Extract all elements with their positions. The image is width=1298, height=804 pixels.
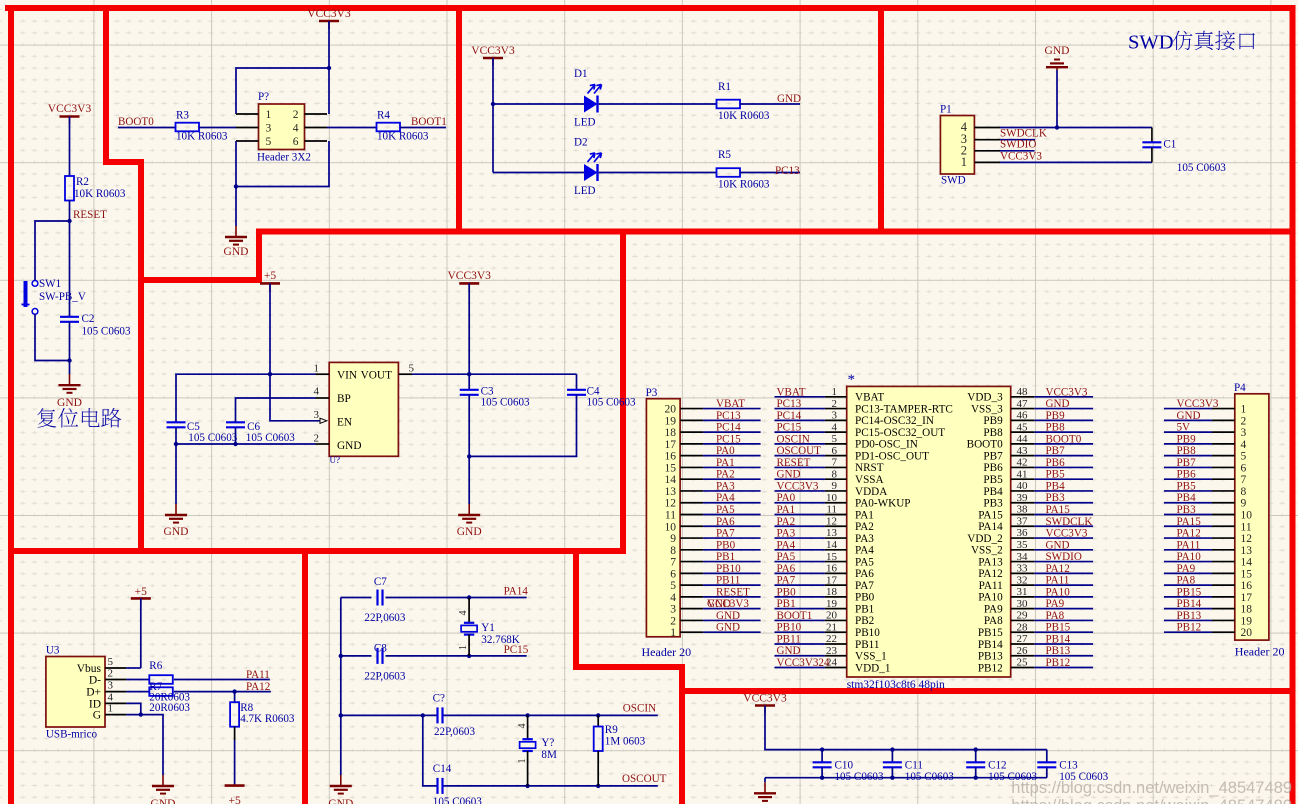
junction C2/SW1 xyxy=(67,358,71,362)
svg-text:PC15: PC15 xyxy=(716,433,741,445)
svg-text:PB9: PB9 xyxy=(1046,410,1066,422)
wire P4 PB4 xyxy=(1164,502,1212,504)
wire xyxy=(328,21,330,68)
svg-text:PA0: PA0 xyxy=(777,492,796,504)
ground crystal xyxy=(328,775,353,804)
pin 48 mcu right xyxy=(1011,386,1034,398)
wire P4 PA10 xyxy=(1164,561,1212,563)
svg-text:SWD: SWD xyxy=(1128,32,1174,54)
svg-text:C14: C14 xyxy=(433,763,452,775)
svg-text:PA1: PA1 xyxy=(777,504,796,516)
wire P3 pin 3 xyxy=(703,608,761,610)
svg-text:1: 1 xyxy=(670,627,676,639)
pin 40 mcu right xyxy=(1011,480,1034,492)
svg-text:3: 3 xyxy=(266,123,272,135)
wire xyxy=(599,103,717,105)
svg-text:G: G xyxy=(93,710,101,722)
svg-text:VCC3V3: VCC3V3 xyxy=(1177,398,1219,410)
header P3 Header 20 xyxy=(646,399,680,637)
resistor R8 xyxy=(230,702,239,727)
pin 1 P3 xyxy=(670,627,703,639)
wire OSCOUT xyxy=(444,785,658,787)
pin 43 mcu right xyxy=(1011,445,1034,457)
junction Y1 top xyxy=(467,595,471,599)
wire xyxy=(400,127,446,129)
wire mcu pin 38 xyxy=(1034,514,1093,516)
svg-text:SWDIO: SWDIO xyxy=(1046,551,1082,563)
svg-text:VSS_2: VSS_2 xyxy=(971,545,1003,557)
power VCC3V3 led xyxy=(471,45,515,66)
svg-text:RESET: RESET xyxy=(716,586,750,598)
svg-text:2: 2 xyxy=(108,668,114,680)
svg-text:GND: GND xyxy=(1046,539,1070,551)
title 复位电路 xyxy=(37,408,121,428)
pin lead Y1 top xyxy=(468,598,470,623)
svg-text:PB10: PB10 xyxy=(777,622,802,634)
pin 34 mcu right xyxy=(1011,551,1034,563)
svg-text:https://blog.csdn.net/weixin_4: https://blog.csdn.net/weixin_48547489 xyxy=(1011,779,1292,797)
svg-text:PA0-WKUP: PA0-WKUP xyxy=(855,498,911,510)
pin numbers U? xyxy=(314,363,415,445)
svg-text:RESET: RESET xyxy=(73,209,107,221)
svg-text:BP: BP xyxy=(337,393,351,405)
svg-text:4: 4 xyxy=(517,724,528,729)
pin stubs U3 xyxy=(105,668,126,715)
wire xyxy=(764,778,766,783)
wire ID xyxy=(126,703,140,714)
wire P4 PB14 xyxy=(1164,608,1212,610)
svg-text:BOOT1: BOOT1 xyxy=(411,116,447,128)
wire xyxy=(1000,139,1035,141)
wire mcu pin 45 xyxy=(1034,431,1093,433)
pin 4 P3 xyxy=(670,592,703,604)
ground usb xyxy=(151,775,176,804)
wire xyxy=(69,201,71,222)
svg-text:PD1-OSC_OUT: PD1-OSC_OUT xyxy=(855,450,929,462)
LED D2 xyxy=(584,153,602,181)
svg-text:6: 6 xyxy=(1241,462,1247,474)
ground swd (inverted) xyxy=(1045,45,1070,70)
wire P3 PB10 xyxy=(703,572,761,574)
svg-text:SWDCLK: SWDCLK xyxy=(1000,127,1047,139)
svg-text:PB15: PB15 xyxy=(1177,586,1202,598)
svg-text:VCC3V3: VCC3V3 xyxy=(1000,150,1042,162)
wire xyxy=(140,598,142,668)
svg-text:PA10: PA10 xyxy=(1177,551,1202,563)
wire P3 PB1 xyxy=(703,561,761,563)
svg-text:C10: C10 xyxy=(835,760,854,772)
wire C12 bottom lead xyxy=(975,767,977,777)
wire crystal gnd rail xyxy=(340,598,342,776)
pin 37 mcu right xyxy=(1011,515,1034,527)
svg-text:PA12: PA12 xyxy=(1177,528,1201,540)
svg-text:11: 11 xyxy=(665,510,676,522)
wire VOUT xyxy=(412,373,577,375)
svg-text:R1: R1 xyxy=(718,81,731,93)
svg-text:105 C0603: 105 C0603 xyxy=(82,326,131,338)
svg-text:4: 4 xyxy=(1241,439,1247,451)
svg-text:VBAT: VBAT xyxy=(716,398,745,410)
wire P3 PA6 xyxy=(703,525,761,527)
svg-text:BOOT0: BOOT0 xyxy=(1046,433,1082,445)
pin 6 P3 xyxy=(670,568,703,580)
wire mcu pin 48 xyxy=(1034,396,1093,398)
svg-text:R2: R2 xyxy=(76,176,89,188)
svg-text:9: 9 xyxy=(1241,498,1247,510)
wire mcu pin 42 xyxy=(1034,466,1093,468)
wire mcu pin 15 xyxy=(775,561,825,563)
svg-text:1M 0603: 1M 0603 xyxy=(605,736,646,748)
section divider power-top step xyxy=(138,232,259,281)
wire mcu pin 24 xyxy=(775,667,825,669)
svg-text:15: 15 xyxy=(665,462,677,474)
svg-text:VCC3V3: VCC3V3 xyxy=(777,480,819,492)
section border outer top xyxy=(5,5,1296,11)
pin 12 P4 xyxy=(1212,533,1252,545)
pin 16 P3 xyxy=(665,451,704,463)
wire D+ xyxy=(126,691,149,693)
pin 4 P4 xyxy=(1212,439,1247,451)
svg-text:PB3: PB3 xyxy=(1177,504,1197,516)
wire P3 PA5 xyxy=(703,514,761,516)
power +5 usb xyxy=(131,586,151,606)
svg-text:PA5: PA5 xyxy=(855,556,874,568)
capacitor C10 xyxy=(813,762,832,767)
svg-text:10K R0603: 10K R0603 xyxy=(74,188,126,200)
svg-text:4: 4 xyxy=(108,691,114,703)
junction OSCIN rail xyxy=(339,713,343,717)
pin 44 mcu right xyxy=(1011,433,1034,445)
junction cap top x892 xyxy=(890,747,894,751)
wire mcu pin 43 xyxy=(1034,455,1093,457)
svg-text:VCC3V3: VCC3V3 xyxy=(447,270,491,282)
LED D1 xyxy=(584,85,602,113)
resistor R7 xyxy=(149,687,173,696)
svg-text:12: 12 xyxy=(1241,533,1253,545)
svg-text:SWD: SWD xyxy=(941,175,966,187)
pin 46 mcu right xyxy=(1011,410,1034,422)
svg-text:GND: GND xyxy=(716,610,740,622)
wire xyxy=(69,221,71,317)
svg-text:+5: +5 xyxy=(264,270,276,282)
svg-text:16: 16 xyxy=(665,451,677,463)
svg-text:PA8: PA8 xyxy=(1046,610,1065,622)
svg-text:105 C0603: 105 C0603 xyxy=(587,397,636,409)
capacitor C8 xyxy=(378,648,383,664)
wire xyxy=(328,68,330,114)
svg-text:VSS_3: VSS_3 xyxy=(971,403,1003,415)
svg-text:PB5: PB5 xyxy=(983,474,1003,486)
svg-text:14: 14 xyxy=(1241,557,1253,569)
ground boot xyxy=(224,226,249,258)
svg-text:17: 17 xyxy=(665,439,677,451)
svg-text:NRST: NRST xyxy=(855,462,884,474)
wire P4 PA11 xyxy=(1164,549,1212,551)
svg-text:PB0: PB0 xyxy=(855,592,875,604)
wire decoupling top rail xyxy=(765,706,1047,750)
svg-text:D1: D1 xyxy=(574,68,588,80)
svg-text:4: 4 xyxy=(458,611,469,616)
svg-text:+5: +5 xyxy=(135,586,147,598)
svg-text:PA13: PA13 xyxy=(978,556,1003,568)
pin 18 P3 xyxy=(665,427,704,439)
svg-text:GND: GND xyxy=(716,622,740,634)
wire xyxy=(35,221,70,281)
wire xyxy=(327,127,377,129)
svg-text:PA8: PA8 xyxy=(984,615,1003,627)
svg-text:PA7: PA7 xyxy=(716,528,735,540)
pin 26 mcu right xyxy=(1011,645,1034,657)
capacitor C14 xyxy=(438,778,443,794)
wire mcu pin 3 xyxy=(775,419,825,421)
svg-text:PA9: PA9 xyxy=(1046,598,1065,610)
junction C8 rail xyxy=(339,654,343,658)
capacitor C11 xyxy=(883,762,902,767)
svg-text:GND: GND xyxy=(777,469,801,481)
junction C3/C4 gnd xyxy=(467,454,471,458)
pin 13 P3 xyxy=(665,486,704,498)
wire C12 top lead xyxy=(975,750,977,763)
pin 15 P4 xyxy=(1212,568,1252,580)
wire P4 PB6 xyxy=(1164,478,1212,480)
svg-text:5: 5 xyxy=(266,136,272,148)
wire mcu pin 47 xyxy=(1034,408,1093,410)
pin 8 P4 xyxy=(1212,486,1247,498)
svg-text:GND: GND xyxy=(457,526,482,538)
wire mcu pin 20 xyxy=(775,619,825,621)
pin lead R8 bottom xyxy=(234,727,236,740)
svg-text:VCC3V3: VCC3V3 xyxy=(48,103,92,115)
pin arrow EN xyxy=(320,418,327,423)
svg-text:GND: GND xyxy=(151,798,176,804)
svg-text:SWDCLK: SWDCLK xyxy=(1046,516,1093,528)
junction VOUT xyxy=(467,372,471,376)
wire P4 PB15 xyxy=(1164,596,1212,598)
svg-text:PB3: PB3 xyxy=(1046,492,1066,504)
wire xyxy=(1000,161,1152,163)
svg-text:PB6: PB6 xyxy=(983,462,1003,474)
pin lead C1 bottom xyxy=(1151,147,1153,162)
wire P4 PB8 xyxy=(1164,455,1212,457)
svg-text:PB11: PB11 xyxy=(716,575,740,587)
svg-text:R3: R3 xyxy=(176,110,189,122)
ground decoupling xyxy=(754,782,776,801)
pin lead R9 bottom xyxy=(597,751,599,786)
wire mcu pin 18 xyxy=(775,596,825,598)
pin 3 P4 xyxy=(1212,427,1247,439)
svg-text:8M: 8M xyxy=(541,749,557,761)
power VCC3V3 reset xyxy=(48,103,92,125)
pin 41 mcu right xyxy=(1011,468,1034,480)
junction led vcc xyxy=(491,102,495,106)
section divider horizontal y691 xyxy=(679,688,1296,694)
pin 29 mcu right xyxy=(1011,610,1034,622)
wire P3 VBAT xyxy=(703,408,761,410)
pin 32 mcu right xyxy=(1011,574,1034,586)
wire xyxy=(174,691,271,693)
svg-text:USB-mrico: USB-mrico xyxy=(46,729,98,741)
svg-text:PB11: PB11 xyxy=(777,633,801,645)
svg-text:PB13: PB13 xyxy=(1046,645,1071,657)
pin 2 P3 xyxy=(670,615,703,627)
svg-text:3: 3 xyxy=(108,680,114,692)
svg-text:PC14-OSC32_IN: PC14-OSC32_IN xyxy=(855,415,934,427)
title SWD仿真接口 xyxy=(1128,31,1255,54)
capacitor C12 xyxy=(966,762,985,767)
svg-text:PA2: PA2 xyxy=(855,521,874,533)
svg-text:PA6: PA6 xyxy=(855,568,874,580)
pin 4 mcu left xyxy=(825,421,847,433)
capacitor C? xyxy=(438,707,443,723)
svg-text:D-: D- xyxy=(89,675,101,687)
pin 9 P3 xyxy=(670,533,703,545)
wire OSCIN left xyxy=(341,714,437,716)
wire P4 PA8 xyxy=(1164,584,1212,586)
svg-text:PA12: PA12 xyxy=(246,681,270,693)
svg-text:10K R0603: 10K R0603 xyxy=(718,110,770,122)
svg-text:PA3: PA3 xyxy=(777,528,796,540)
svg-text:19: 19 xyxy=(665,415,677,427)
wire mcu pin 23 xyxy=(775,655,825,657)
svg-text:15: 15 xyxy=(1241,568,1253,580)
svg-text:PA4: PA4 xyxy=(716,492,735,504)
pin 5 P4 xyxy=(1212,451,1247,463)
pin 13 mcu left xyxy=(825,527,847,539)
pin 5 P3 xyxy=(670,580,703,592)
connector U3 USB-micro xyxy=(46,657,105,728)
pin 10 P3 xyxy=(665,521,704,533)
wire P3 PB11 xyxy=(703,584,761,586)
wire P3 PA1 xyxy=(703,466,761,468)
svg-text:PB1: PB1 xyxy=(777,598,796,610)
pin 7 P3 xyxy=(670,557,703,569)
svg-text:BOOT0: BOOT0 xyxy=(967,439,1003,451)
svg-text:PA2: PA2 xyxy=(777,516,796,528)
wire mcu pin 22 xyxy=(775,643,825,645)
svg-text:PA7: PA7 xyxy=(855,580,874,592)
pin 10 P4 xyxy=(1212,510,1252,522)
section divider crystal/mcu step xyxy=(576,548,682,804)
svg-text:VDDA: VDDA xyxy=(855,486,887,498)
svg-text:PB1: PB1 xyxy=(716,551,735,563)
pin 14 P3 xyxy=(665,474,704,486)
pin 11 P3 xyxy=(665,510,703,522)
pin names U3 xyxy=(77,663,102,722)
wire P3 PB0 xyxy=(703,549,761,551)
pin 3 P3 xyxy=(670,604,703,616)
svg-text:PC15-OSC32_OUT: PC15-OSC32_OUT xyxy=(855,427,945,439)
resistor R5 xyxy=(717,168,741,177)
svg-text:PA9: PA9 xyxy=(1177,563,1196,575)
svg-text:Vbus: Vbus xyxy=(77,663,102,675)
pin 35 mcu right xyxy=(1011,539,1034,551)
header P1 SWD xyxy=(940,116,974,175)
svg-text:5: 5 xyxy=(1241,451,1247,463)
wire mcu pin 11 xyxy=(775,514,825,516)
wire OSCIN xyxy=(444,714,658,716)
wire xyxy=(175,444,177,504)
header P? Header 3X2 xyxy=(259,104,305,150)
section divider horizontal y231 xyxy=(256,229,1296,235)
svg-text:PB15: PB15 xyxy=(978,627,1003,639)
pin numbers P? xyxy=(266,109,299,148)
wire mcu pin 36 xyxy=(1034,537,1093,539)
svg-text:VIN: VIN xyxy=(337,370,357,382)
svg-text:12: 12 xyxy=(665,498,677,510)
svg-text:10: 10 xyxy=(1241,510,1253,522)
pin lead R9 top xyxy=(597,715,599,726)
svg-text:R5: R5 xyxy=(718,149,731,161)
pin 20 mcu left xyxy=(825,610,847,622)
wire mcu pin 9 xyxy=(775,490,825,492)
power +5 regulator xyxy=(260,270,280,291)
pin 18 mcu left xyxy=(825,586,847,598)
junction C6 gnd xyxy=(233,442,237,446)
svg-text:PD0-OSC_IN: PD0-OSC_IN xyxy=(855,439,918,451)
wire mcu pin 46 xyxy=(1034,419,1093,421)
svg-text:D2: D2 xyxy=(574,137,588,149)
svg-text:PA5: PA5 xyxy=(777,551,796,563)
pin stubs P? left xyxy=(236,114,259,141)
svg-text:1: 1 xyxy=(314,363,320,375)
svg-text:VCC3V3: VCC3V3 xyxy=(743,693,787,705)
wire mcu pin 10 xyxy=(775,502,825,504)
pin 14 mcu left xyxy=(825,539,847,551)
wire C10 top lead xyxy=(821,750,823,763)
pin 45 mcu right xyxy=(1011,421,1034,433)
svg-text:PA14: PA14 xyxy=(504,586,529,598)
svg-text:GND: GND xyxy=(1045,45,1070,57)
svg-text:32.768K: 32.768K xyxy=(481,634,520,646)
junction C5 gnd xyxy=(174,442,178,446)
svg-text:PB10: PB10 xyxy=(855,627,880,639)
pin 1 mcu left xyxy=(825,386,847,398)
svg-text:PB4: PB4 xyxy=(1046,480,1066,492)
wire G to gnd xyxy=(126,715,163,775)
svg-text:P3: P3 xyxy=(646,387,658,399)
svg-text:R6: R6 xyxy=(149,660,162,672)
svg-text:20: 20 xyxy=(665,404,677,416)
wire xyxy=(69,117,71,177)
wire mcu pin 13 xyxy=(775,537,825,539)
pin 47 mcu right xyxy=(1011,398,1034,410)
svg-text:PB10: PB10 xyxy=(716,563,741,575)
resistor R9 xyxy=(594,727,603,752)
wire mcu pin 27 xyxy=(1034,643,1093,645)
svg-text:4: 4 xyxy=(314,386,320,398)
svg-text:8: 8 xyxy=(1241,486,1247,498)
svg-text:10K R0603: 10K R0603 xyxy=(176,131,228,143)
wire C13 bottom lead xyxy=(1046,767,1048,777)
wire xyxy=(469,395,576,457)
svg-text:17: 17 xyxy=(1241,592,1253,604)
wire xyxy=(740,172,800,174)
pin 31 mcu right xyxy=(1011,586,1034,598)
svg-text:EN: EN xyxy=(337,417,352,429)
svg-text:PC13: PC13 xyxy=(777,398,802,410)
pin 30 mcu right xyxy=(1011,598,1034,610)
svg-text:P1: P1 xyxy=(940,104,952,116)
svg-text:VDD_2: VDD_2 xyxy=(967,533,1002,545)
svg-text:18: 18 xyxy=(1241,604,1253,616)
svg-text:1: 1 xyxy=(961,155,967,169)
wire xyxy=(269,283,271,374)
svg-text:2: 2 xyxy=(670,615,676,627)
svg-text:PB3: PB3 xyxy=(983,498,1003,510)
svg-text:PA11: PA11 xyxy=(1177,539,1201,551)
svg-text:10: 10 xyxy=(665,521,677,533)
svg-text:PA15: PA15 xyxy=(1177,516,1202,528)
